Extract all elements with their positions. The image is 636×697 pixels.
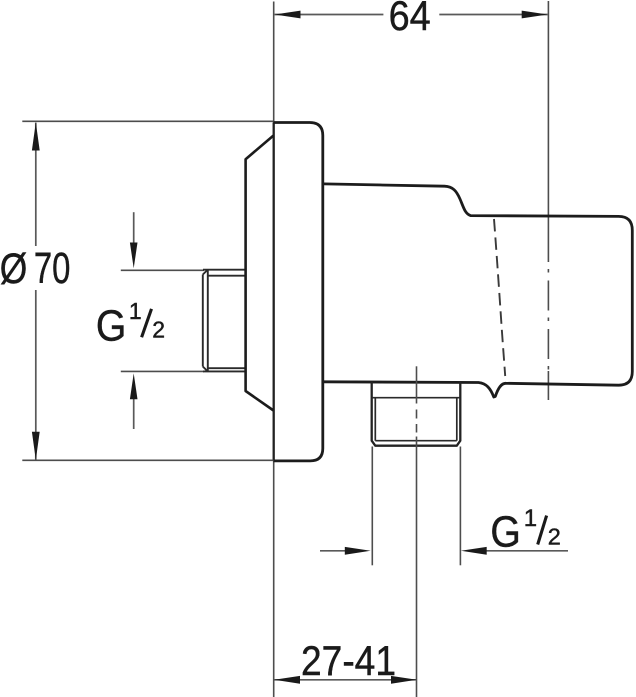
dimension line 27-41: [275, 679, 417, 681]
svg-text:G: G: [96, 302, 127, 350]
svg-text:G: G: [490, 509, 521, 557]
G 1/2 left lower arrow: [133, 399, 135, 430]
flange face emphasized segment: [273, 123, 275, 462]
extension line: bottom of flange (dia 70): [22, 459, 273, 461]
outlet centerline (axis) / right extent of 27-41: [416, 366, 418, 403]
dimension line dia 70 (vertical, broken at text): [35, 123, 37, 246]
svg-text:64: 64: [389, 0, 431, 39]
G 1/2 right: arrow pointing right at nipple left edge: [320, 550, 346, 552]
svg-text:2: 2: [152, 316, 165, 342]
arrowhead left of 64: [275, 11, 301, 19]
extension lines below nipple (G 1/2 right): [371, 447, 373, 566]
svg-text:70: 70: [34, 245, 71, 293]
dimension line 64: [275, 14, 384, 16]
svg-text:27-41: 27-41: [301, 637, 396, 684]
extension line: top of flange (dia 70): [22, 120, 273, 122]
svg-text:1: 1: [129, 298, 142, 324]
extension line: inlet bottom edge (G 1/2 left): [121, 370, 204, 372]
escutcheon cone behind flange: [246, 136, 274, 411]
outlet nipple (male thread, bottom): [372, 382, 461, 446]
product break dashed line: [494, 219, 505, 376]
svg-text:1: 1: [524, 505, 537, 532]
G 1/2 right: arrow pointing left at nipple right edge: [486, 550, 569, 552]
arrowhead right of 64: [522, 11, 548, 19]
wall flange (rounded right corners): [274, 123, 323, 461]
extension line: flange front face / left extent of 64 and 27-41: [273, 2, 275, 697]
extension line: inlet top edge (G 1/2 left): [121, 269, 204, 271]
main body outline with step and holder end: [324, 184, 633, 397]
G 1/2 left upper arrow: [133, 212, 135, 243]
svg-text:2: 2: [548, 524, 561, 550]
arrowhead up (dia 70): [32, 122, 40, 150]
arrowhead down (dia 70): [32, 432, 40, 460]
inlet connector (male thread, left): [203, 270, 246, 372]
extension line: holder pivot axis (right extent of 64): [547, 1, 549, 232]
svg-text:Ø: Ø: [0, 245, 27, 293]
